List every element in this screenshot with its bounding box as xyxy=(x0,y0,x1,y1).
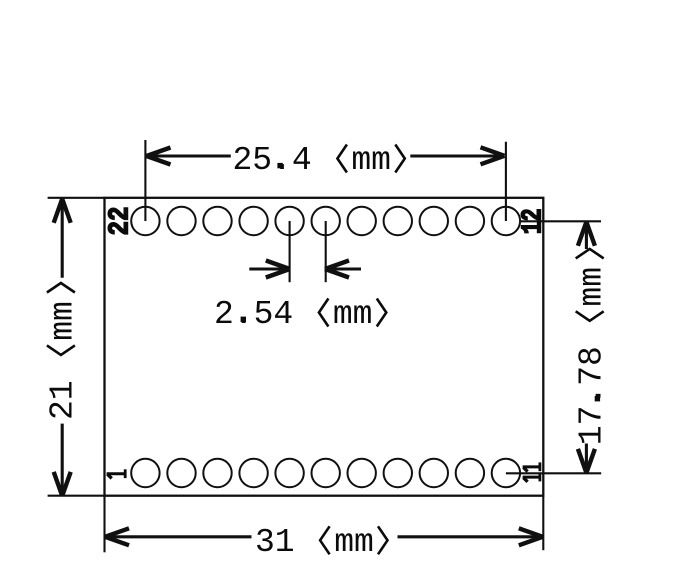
svg-text:2.54 mm: 2.54 mm xyxy=(214,296,372,333)
svg-text:22: 22 xyxy=(103,207,136,236)
svg-text:31 mm: 31 mm xyxy=(255,524,374,561)
svg-text:17.78 mm: 17.78 mm xyxy=(573,267,610,445)
svg-text:21 mm: 21 mm xyxy=(45,301,82,420)
svg-text:25.4 mm: 25.4 mm xyxy=(233,142,391,179)
svg-text:12: 12 xyxy=(516,208,549,234)
